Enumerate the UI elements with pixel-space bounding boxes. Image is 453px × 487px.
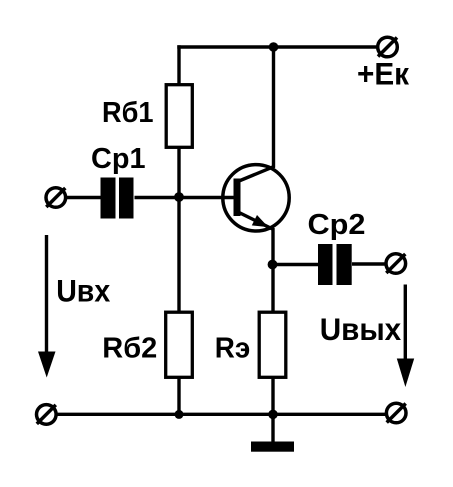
svg-text:Uвх: Uвх xyxy=(56,273,110,309)
svg-text:Rэ: Rэ xyxy=(215,332,251,364)
svg-text:+Ек: +Ек xyxy=(357,56,409,92)
svg-text:Ср2: Ср2 xyxy=(308,208,366,240)
svg-text:Rб2: Rб2 xyxy=(102,332,157,364)
svg-text:Ср1: Ср1 xyxy=(91,142,146,174)
svg-text:Rб1: Rб1 xyxy=(102,96,154,128)
svg-text:Uвых: Uвых xyxy=(320,311,402,347)
